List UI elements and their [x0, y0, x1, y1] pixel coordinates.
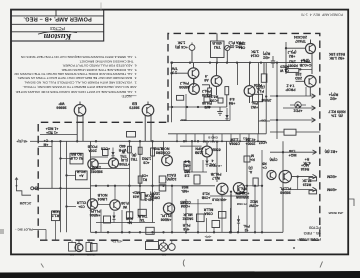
resistor R608: [177, 95, 184, 100]
svg-text:PA08: PA08: [254, 83, 262, 87]
label TR608 type: [295, 72, 302, 80]
svg-text:R6: R6: [262, 162, 266, 166]
label (8) 1%: [328, 109, 345, 117]
label col c2: [248, 200, 258, 208]
svg-text:MIL/R: MIL/R: [183, 213, 193, 217]
wire y204 link: [180, 203, 212, 205]
title block row line 2: [11, 23, 104, 25]
transistor TR613: [87, 199, 97, 209]
ground symbol G1: [219, 107, 221, 112]
label AA08 PhLJ: [202, 89, 211, 97]
maker logo script: [38, 31, 77, 42]
svg-text:PhLJ: PhLJ: [238, 187, 246, 191]
resistor R607: [261, 74, 267, 82]
svg-text:650B: 650B: [212, 148, 221, 152]
label edge +B0M: [327, 188, 337, 192]
wire clip link3: [67, 206, 77, 208]
pen mark left: [41, 264, 44, 268]
label C1 50: [46, 127, 59, 135]
svg-text:R6.2: R6.2: [211, 95, 218, 99]
wire x139 vertical: [139, 141, 141, 222]
svg-text:EB: EB: [132, 101, 137, 105]
svg-text:22M: 22M: [239, 42, 246, 46]
svg-text:MLLR: MLLR: [203, 208, 213, 212]
wire TR602 collector: [216, 63, 218, 76]
svg-text:PC703: PC703: [50, 25, 65, 31]
label col b2: [203, 208, 213, 216]
resistor R625: [159, 176, 166, 183]
transistor TR611: [88, 159, 98, 169]
wire x46 vertical: [45, 230, 47, 241]
faint pen tick above title block: [100, 3, 102, 10]
label 200A POLB: [87, 145, 97, 153]
diode D603: [205, 160, 208, 164]
wire mid row y157: [91, 156, 109, 158]
wire TR606 lead a: [144, 116, 146, 142]
svg-text:NOLB: NOLB: [97, 193, 107, 197]
label above TR617: [210, 172, 221, 180]
svg-text:3. MAIN BOARD AND MAY BE REPL: 3. MAIN BOARD AND MAY BE REPLACED ONLY W…: [17, 76, 136, 80]
pilot lamp PL601: [75, 244, 83, 252]
label TR604 type: [256, 85, 264, 93]
label +B2 edge: [329, 92, 339, 100]
pen mark right: [320, 262, 323, 268]
wire TR607 emitter down: [311, 54, 313, 75]
notes heading underline: [126, 95, 137, 97]
svg-text:4. ALL TRANSISTOR AND DIODE T: 4. ALL TRANSISTOR AND DIODE TYPES SHOWN …: [14, 72, 137, 76]
wire y172 link: [184, 171, 207, 173]
label TR603 type bold: [179, 81, 190, 89]
svg-text:TVLW: TVLW: [137, 214, 147, 218]
wire output node bold: [230, 193, 232, 232]
wire R607 top lead: [263, 63, 265, 74]
label TR614 type: [159, 146, 170, 154]
transistor TR619: [267, 170, 276, 179]
svg-text:AND NO LOAD, MEASURED WITH RES: AND NO LOAD, MEASURED WITH RESPECT TO CH…: [22, 85, 136, 89]
junction y69: [299, 68, 301, 70]
label col a4: [182, 223, 190, 231]
wire left edge vertical: [171, 63, 173, 123]
transistor TR603: [189, 84, 200, 95]
label col a1: [181, 185, 189, 193]
wire x203 vertical2: [202, 160, 204, 172]
resistor R633: [253, 178, 258, 186]
wire x262 vertical upper: [261, 150, 263, 186]
label R608 7.4: [285, 84, 296, 92]
svg-text:7.4 Z: 7.4 Z: [286, 84, 295, 88]
junction dots V1 V2: [257, 88, 259, 90]
wire links below dash: [71, 240, 73, 242]
box C12 CLLR: [146, 227, 154, 234]
svg-text:R620: R620: [280, 65, 288, 69]
label R642: [52, 210, 59, 218]
wire x247 vertical: [246, 141, 248, 196]
svg-text:PhLJB: PhLJB: [210, 172, 221, 176]
svg-text:DH+: DH+: [180, 118, 186, 122]
wire right vertical V2: [265, 63, 267, 134]
wire TR605 lead b: [82, 116, 84, 125]
svg-text:+B.08MΩ: +B.08MΩ: [208, 164, 222, 168]
resistor R621: [128, 146, 132, 153]
wire y232 bus: [91, 231, 247, 233]
svg-text:+C07: +C07: [259, 141, 267, 145]
connector arrow A2: [312, 106, 316, 110]
output transformer T601: [159, 243, 167, 251]
svg-text:+B – REG: +B – REG: [304, 231, 321, 235]
wire clip link1: [61, 158, 71, 160]
wire node TR602-R605: [202, 84, 210, 86]
svg-text:PhLJ: PhLJ: [180, 81, 189, 85]
frame corner mark: [349, 199, 354, 206]
wire x52 vertical: [51, 141, 53, 188]
title block top-row divider: [55, 10, 57, 16]
svg-text:15Ω: 15Ω: [289, 60, 296, 64]
wire TR616 collector: [206, 141, 208, 146]
svg-text:PhL: PhL: [243, 224, 249, 228]
wire junction row: [91, 185, 216, 187]
svg-text:CLLR: CLLR: [76, 201, 86, 205]
svg-text:1.50Ω: 1.50Ω: [153, 147, 163, 151]
wire y232 ext: [246, 231, 283, 233]
output node dot: [230, 191, 232, 193]
svg-text:PC703: PC703: [309, 225, 321, 229]
label 47K: [303, 157, 311, 165]
transistor TR614: [162, 155, 173, 166]
svg-text:+(2) 12+: +(2) 12+: [111, 240, 123, 244]
output transistor TR618: [233, 183, 244, 194]
label TR616 type: [194, 147, 203, 155]
label TR616 right: [212, 148, 221, 152]
label C8 150: [142, 157, 152, 165]
wire right vertical V1: [258, 63, 260, 134]
svg-text:+B2 (B): +B2 (B): [324, 150, 337, 154]
svg-text:J/CA2M: J/CA2M: [19, 201, 31, 205]
wire TR602 emitter: [216, 86, 218, 95]
wire x172 vertical: [171, 186, 173, 232]
wire K601 top lead: [216, 33, 218, 41]
wire J601 into board: [33, 187, 91, 189]
resistor R642: [52, 211, 60, 221]
resistor R620b: [309, 190, 317, 194]
wire TR605 lead a2: [76, 124, 78, 141]
wire x286 vertical: [285, 42, 287, 74]
resistor R622b: [151, 148, 155, 156]
label C608: [101, 147, 110, 151]
label R619 val: [302, 179, 312, 187]
transistor TR615: [163, 203, 174, 214]
resistor R622: [138, 147, 142, 154]
driver coupling box: [284, 129, 296, 135]
wire TR604 collector: [249, 63, 251, 86]
wire TR601 collector: [193, 63, 195, 68]
wire junction row right: [243, 185, 263, 187]
label col a3: [183, 213, 194, 221]
svg-text:GND B: GND B: [207, 136, 218, 140]
clipper network box: [70, 153, 83, 164]
connector strip pins: [176, 134, 178, 142]
label R625: [166, 173, 176, 181]
label D606: [243, 224, 249, 232]
wire drive row: [270, 131, 284, 133]
jack J602: [86, 243, 92, 252]
resistor R640: [126, 212, 132, 218]
wire pilot sig lead: [33, 229, 46, 231]
svg-text:5. ALL DIODES ARE TYPE 1N4003: 5. ALL DIODES ARE TYPE 1N4003 UNLESS NOT…: [61, 68, 137, 72]
wire TR604 emitter: [249, 96, 251, 103]
label TR611 type: [89, 166, 102, 174]
svg-text:R.08: R.08: [121, 201, 128, 205]
wire x283 vertical: [282, 141, 284, 232]
label W8 PH08: [202, 101, 212, 109]
label R623: [142, 174, 148, 182]
label +B2 1.5K R615: [329, 52, 346, 60]
wire TR606 lead b: [150, 116, 152, 142]
y146 dots: [183, 140, 185, 142]
label TR605 38866: [56, 101, 66, 109]
label TR613 below: [90, 209, 101, 217]
label TR602 type: [204, 74, 209, 82]
svg-text:8.6: 8.6: [230, 97, 235, 101]
connector strip upper line: [168, 133, 266, 135]
svg-text:(1.8): (1.8): [121, 158, 128, 162]
title block outline: [11, 10, 104, 41]
svg-text:2SLB: 2SLB: [92, 166, 101, 170]
resistor R634: [244, 156, 250, 162]
wire x127 vertical: [129, 141, 131, 222]
pen mark center: [183, 260, 184, 267]
label D603: [209, 159, 215, 167]
label R641: [137, 214, 147, 222]
wire y177 edge row: [291, 176, 313, 178]
label R634: [250, 154, 254, 162]
svg-text:47.2M: 47.2M: [246, 138, 256, 142]
wire TR606 top lead: [147, 102, 149, 105]
transistor TR607: [306, 44, 316, 54]
svg-text:1.50Ω: 1.50Ω: [142, 157, 152, 161]
wire mid bus: [169, 106, 227, 108]
resistor R619: [309, 177, 317, 181]
svg-text:+1 MΩ+: +1 MΩ+: [46, 127, 59, 131]
svg-text:R.W: R.W: [125, 217, 132, 221]
diode D606: [237, 219, 240, 223]
junction x60: [59, 157, 61, 159]
resistor R609: [204, 97, 210, 102]
wire TR601 base lead: [172, 72, 189, 74]
svg-text:+R4 R0.8: +R4 R0.8: [212, 198, 227, 202]
transistor TR612: [109, 158, 119, 168]
svg-text:17.2K: 17.2K: [302, 179, 312, 183]
svg-text:48Ω: 48Ω: [119, 144, 126, 148]
wire x122 vertical: [121, 210, 123, 232]
connector strip pads: [176, 140, 178, 142]
trimmer VR601: [225, 45, 230, 50]
svg-text:R(P): R(P): [262, 51, 270, 55]
svg-text:5Ω BR: 5Ω BR: [71, 152, 82, 156]
svg-text:2.2M: 2.2M: [231, 138, 239, 142]
svg-text:MAIN AMP: MAIN AMP: [203, 140, 219, 144]
transistor TR601: [188, 68, 199, 79]
diode D610 vertical: [111, 152, 114, 156]
label col a2: [180, 200, 191, 208]
label CW: [270, 158, 278, 162]
svg-text:235: 235: [296, 72, 302, 76]
capacitor C608 box: [103, 150, 109, 156]
input connector J601: [16, 178, 18, 186]
svg-text:R609 R2.7: R609 R2.7: [328, 109, 345, 113]
label C6 22M: [239, 42, 246, 50]
wire y222 link: [96, 222, 155, 224]
label R622: [131, 153, 138, 161]
label C608A 22M: [229, 138, 240, 146]
resistor R630: [76, 171, 88, 180]
label TR617 TR618: [212, 198, 227, 202]
junction dots mid bus: [171, 106, 173, 108]
wire TR605 top lead: [79, 102, 81, 105]
wire x226 vertical: [226, 141, 228, 172]
svg-text:Kustom: Kustom: [43, 32, 72, 42]
svg-text:MΩ: MΩ: [184, 170, 190, 174]
svg-text:GM: GM: [161, 253, 166, 257]
svg-text:PLLPL: PLLPL: [161, 214, 172, 218]
right col junctions: [282, 151, 284, 153]
svg-text:1.5K: 1.5K: [177, 41, 185, 45]
wire x298 vertical: [297, 177, 299, 190]
svg-text:+B2 W/GB: +B2 W/GB: [328, 211, 344, 215]
wire edge row 2: [283, 107, 316, 109]
svg-text:+B2M: +B2M: [327, 175, 337, 179]
relay box K601: [211, 41, 225, 58]
wire clip link2: [67, 174, 76, 176]
resistor R605: [208, 88, 212, 96]
svg-text:1. ALL RESISTORS ARE 1/2 WATT: 1. ALL RESISTORS ARE 1/2 WATT ±10% AND C…: [15, 90, 136, 94]
svg-text:R(P)+: R(P)+: [329, 92, 339, 96]
wire y69 link: [299, 68, 312, 70]
fuse F601: [69, 243, 76, 252]
wire C601 lead down: [191, 50, 193, 62]
svg-text:450-B: 450-B: [212, 41, 222, 45]
label R630: [77, 170, 86, 178]
power transistor TR606 offboard: [142, 104, 154, 116]
svg-text:C+: C+: [44, 139, 48, 143]
label C601 value: [174, 41, 187, 49]
svg-text:-9: -9: [205, 74, 208, 78]
label TR615 type: [161, 214, 172, 222]
label R624b: [144, 194, 154, 202]
transistor TR613b: [110, 200, 120, 210]
wire x255 vertical: [254, 186, 256, 232]
output jack circle: [168, 244, 175, 251]
box bm4: [219, 212, 226, 219]
wire TR601 emitter: [193, 79, 195, 86]
resistor R623: [138, 176, 142, 183]
connector arrow A5: [313, 174, 317, 178]
wire x555 vertical: [55, 221, 57, 241]
junction row dots: [95, 185, 97, 187]
svg-text:POWER AMP REV. 4 1-70: POWER AMP REV. 4 1-70: [301, 12, 343, 16]
label R620: [279, 65, 288, 73]
wire TR616 emitter: [206, 157, 208, 160]
label R6 86: [229, 97, 236, 105]
label C07: [259, 141, 267, 145]
svg-text:WP: WP: [58, 101, 64, 105]
label edge +B2M: [327, 175, 337, 179]
junction row right dots: [246, 185, 248, 187]
junction left edge: [170, 61, 172, 63]
wire x237 vertical: [237, 63, 239, 85]
svg-text:1.5K: 1.5K: [251, 49, 259, 53]
wire x262 vertical: [261, 186, 263, 232]
svg-text:M: M: [251, 154, 254, 158]
junction dots on +B bus: [171, 61, 173, 63]
label R640: [125, 217, 132, 225]
svg-text:+B0M: +B0M: [327, 188, 337, 192]
svg-text:PhLJ: PhLJ: [202, 89, 211, 93]
title block row line 1: [11, 15, 104, 17]
resistor R624: [141, 193, 145, 201]
wire y189 edge row: [283, 189, 313, 191]
wire x217 vertical: [216, 141, 218, 182]
box bm2: [197, 214, 205, 222]
transistor TR608: [305, 76, 317, 88]
label R626: [150, 192, 160, 200]
svg-text:K/R: K/R: [52, 210, 59, 214]
wire x230 vertical: [229, 102, 231, 121]
resistor R631: [184, 162, 190, 171]
svg-text:(2): (2): [248, 166, 252, 170]
svg-text:6. ADJUSTED FOR FULL RATED OU: 6. ADJUSTED FOR FULL RATED OUTPUT POWER.: [62, 64, 136, 68]
diode D601: [225, 115, 228, 119]
output transistor TR617: [217, 183, 228, 194]
label TR619: [262, 162, 266, 170]
label TR604 top: [254, 83, 262, 87]
svg-text:NM: NM: [86, 253, 91, 257]
x255 x262 dots: [254, 231, 256, 233]
terminal block TB1: [146, 242, 159, 250]
wire TR608 base: [296, 80, 305, 82]
title block row line 3: [11, 31, 104, 33]
wire R605 lead: [209, 85, 211, 88]
capacitor C601: [189, 45, 195, 51]
wire x151 vertical: [152, 141, 154, 222]
svg-text:PT.08M: PT.08M: [236, 202, 247, 206]
cap C620 box: [104, 216, 111, 223]
svg-text:(P)LJ: (P)LJ: [288, 50, 297, 54]
svg-text:1Ω(W): 1Ω(W): [150, 192, 160, 196]
resistor R616: [286, 69, 299, 73]
wire x90 vertical: [90, 141, 92, 232]
svg-text:+B (B)+: +B (B)+: [16, 139, 27, 143]
dashed PCB boundary outline: [38, 33, 320, 240]
label C GJB: [299, 59, 311, 67]
connector arrow A1: [312, 94, 316, 98]
jack box bottom-left: [91, 244, 98, 252]
wire TR613 link: [98, 204, 110, 206]
wire y146 link: [180, 145, 202, 147]
label K601 500R: [212, 41, 222, 49]
label col c1: [238, 187, 246, 195]
label R608 15: [287, 60, 298, 68]
svg-text:PO.R: PO.R: [77, 170, 86, 174]
label TR613b side: [121, 201, 128, 209]
main horizontal bus: [38, 140, 266, 142]
resistor R610: [218, 98, 223, 103]
svg-text:NOTE:: NOTE:: [121, 94, 131, 98]
label 2.8M: [184, 170, 190, 178]
transistor TR616: [202, 146, 213, 157]
label R633: [248, 166, 252, 174]
stray dot: [293, 247, 295, 249]
wire mid row y168: [91, 167, 130, 169]
